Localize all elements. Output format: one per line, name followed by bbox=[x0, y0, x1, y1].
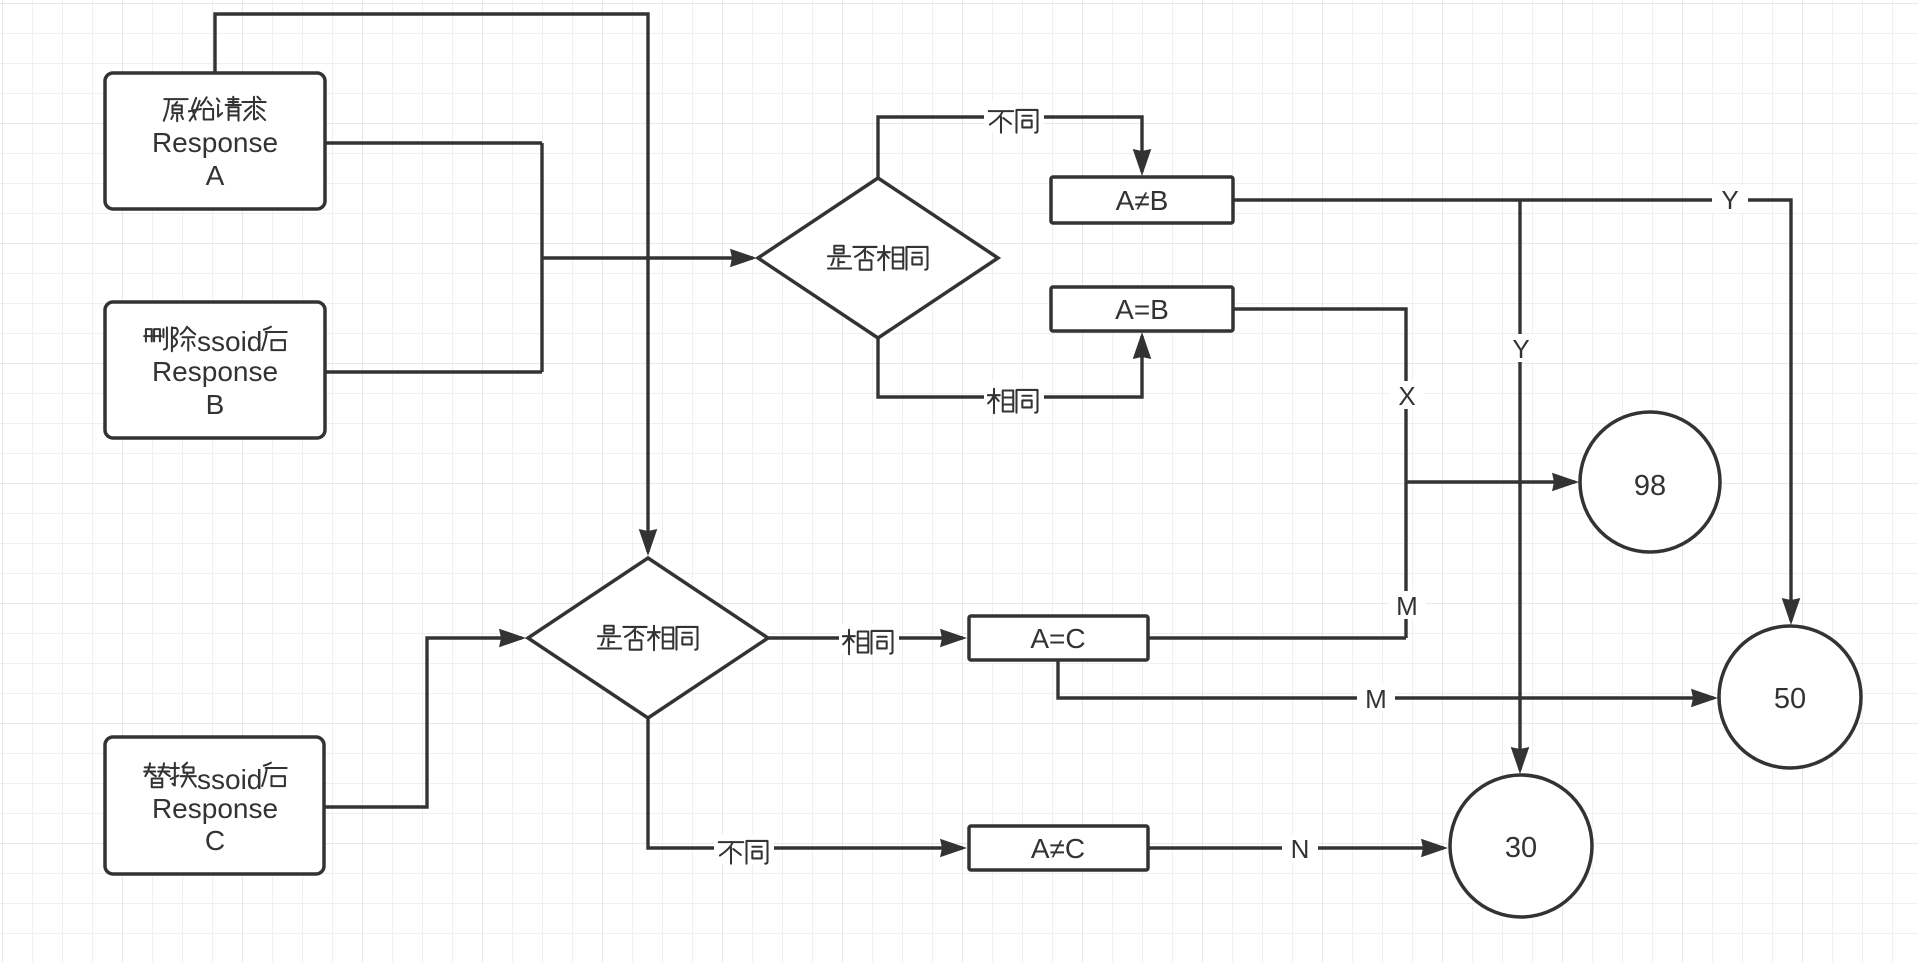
svg-text:Response: Response bbox=[152, 793, 278, 824]
wire D1-bottom (xiangtong) to AeqB bbox=[878, 336, 1142, 397]
diamond D1: shifou xiangtong bbox=[758, 178, 998, 338]
svg-text:30: 30 bbox=[1505, 832, 1537, 864]
svg-text:Response: Response bbox=[152, 356, 278, 387]
label Y on branch to 30 bbox=[1503, 334, 1539, 364]
arrowhead into 50 left bbox=[1691, 689, 1718, 708]
label xiangtong on D2 right wire bbox=[839, 624, 899, 654]
arrowhead into AneC left bbox=[940, 839, 967, 858]
svg-text:ssoid: ssoid bbox=[197, 326, 262, 357]
svg-text:50: 50 bbox=[1774, 683, 1806, 715]
box C: replace ssoid Response C bbox=[105, 737, 324, 874]
label xiangtong on D1 bottom wire bbox=[984, 382, 1044, 413]
circle 50 bbox=[1719, 626, 1861, 768]
arrowhead into AeqC left bbox=[940, 629, 967, 648]
label M on AeqC-50 wire bbox=[1357, 684, 1395, 714]
rect AneC bbox=[969, 826, 1148, 870]
svg-text:98: 98 bbox=[1634, 470, 1666, 502]
arrowhead into AeqB bottom bbox=[1133, 332, 1152, 359]
svg-text:ssoid: ssoid bbox=[197, 764, 262, 795]
svg-text:N: N bbox=[1291, 834, 1310, 864]
svg-text:Y: Y bbox=[1721, 185, 1738, 215]
box B: delete ssoid Response B bbox=[105, 302, 325, 438]
svg-text:Y: Y bbox=[1512, 334, 1529, 364]
svg-text:M: M bbox=[1396, 591, 1418, 621]
wire D2-right (xiangtong) to AeqC bbox=[768, 636, 963, 639]
arrowhead into 98 left bbox=[1552, 473, 1579, 492]
wire AneC right, N, to 30 bbox=[1148, 846, 1444, 849]
arrowhead into AneB top bbox=[1133, 149, 1152, 176]
wire C-right up to D2 bbox=[324, 638, 522, 807]
arrowhead into 50 top bbox=[1782, 598, 1801, 625]
label M on vertical above AeqC bbox=[1388, 591, 1426, 621]
svg-text:Response: Response bbox=[152, 127, 278, 158]
wire AeqC right to M vertical bbox=[1148, 636, 1406, 639]
svg-text:X: X bbox=[1398, 381, 1415, 411]
svg-text:A=C: A=C bbox=[1030, 623, 1085, 654]
diamond D2: shifou xiangtong bbox=[528, 558, 768, 718]
arrowhead into 30 top bbox=[1511, 747, 1530, 774]
arrowhead into D2 left bbox=[499, 629, 526, 648]
label N on AneC-30 wire bbox=[1282, 834, 1318, 864]
wire D2-bottom (budong) to AneC bbox=[648, 718, 963, 848]
wire A-right and B-right merge to D1 bbox=[325, 143, 753, 372]
circle 30 bbox=[1450, 775, 1592, 917]
svg-text:A≠C: A≠C bbox=[1031, 833, 1085, 864]
svg-text:C: C bbox=[205, 825, 225, 856]
arrowhead into 30 left bbox=[1421, 839, 1448, 858]
label X on AeqB vertical bbox=[1390, 381, 1424, 411]
wire D1-top (budong) to AneB bbox=[878, 117, 1142, 178]
rect AneB bbox=[1051, 177, 1233, 223]
wire AeqC bottom, M, to 50 bbox=[1058, 660, 1714, 698]
arrowhead into D2 top bbox=[639, 529, 658, 556]
label budong on D2 bottom wire bbox=[714, 834, 774, 864]
arrowhead into D1 left bbox=[730, 249, 757, 268]
rect AeqB bbox=[1051, 287, 1233, 331]
label budong on D1 top wire bbox=[984, 102, 1044, 133]
label Y on AneB-50 wire bbox=[1712, 185, 1748, 215]
box A: yuanshi request Response A bbox=[105, 73, 325, 209]
svg-text:A: A bbox=[206, 160, 225, 191]
rect AeqC bbox=[969, 616, 1148, 660]
svg-text:A=B: A=B bbox=[1115, 294, 1169, 325]
wire Y branch down to 30 bbox=[1518, 200, 1521, 770]
svg-text:M: M bbox=[1365, 684, 1387, 714]
svg-text:A≠B: A≠B bbox=[1116, 185, 1169, 216]
wire AeqB right, X/M vertical, arrow to 98 bbox=[1233, 309, 1575, 638]
wire A-top up over to D2 bbox=[215, 14, 648, 552]
svg-text:B: B bbox=[206, 389, 225, 420]
wire AneB right, Y corner, down to 50 bbox=[1233, 200, 1791, 621]
circle 98 bbox=[1580, 412, 1720, 552]
